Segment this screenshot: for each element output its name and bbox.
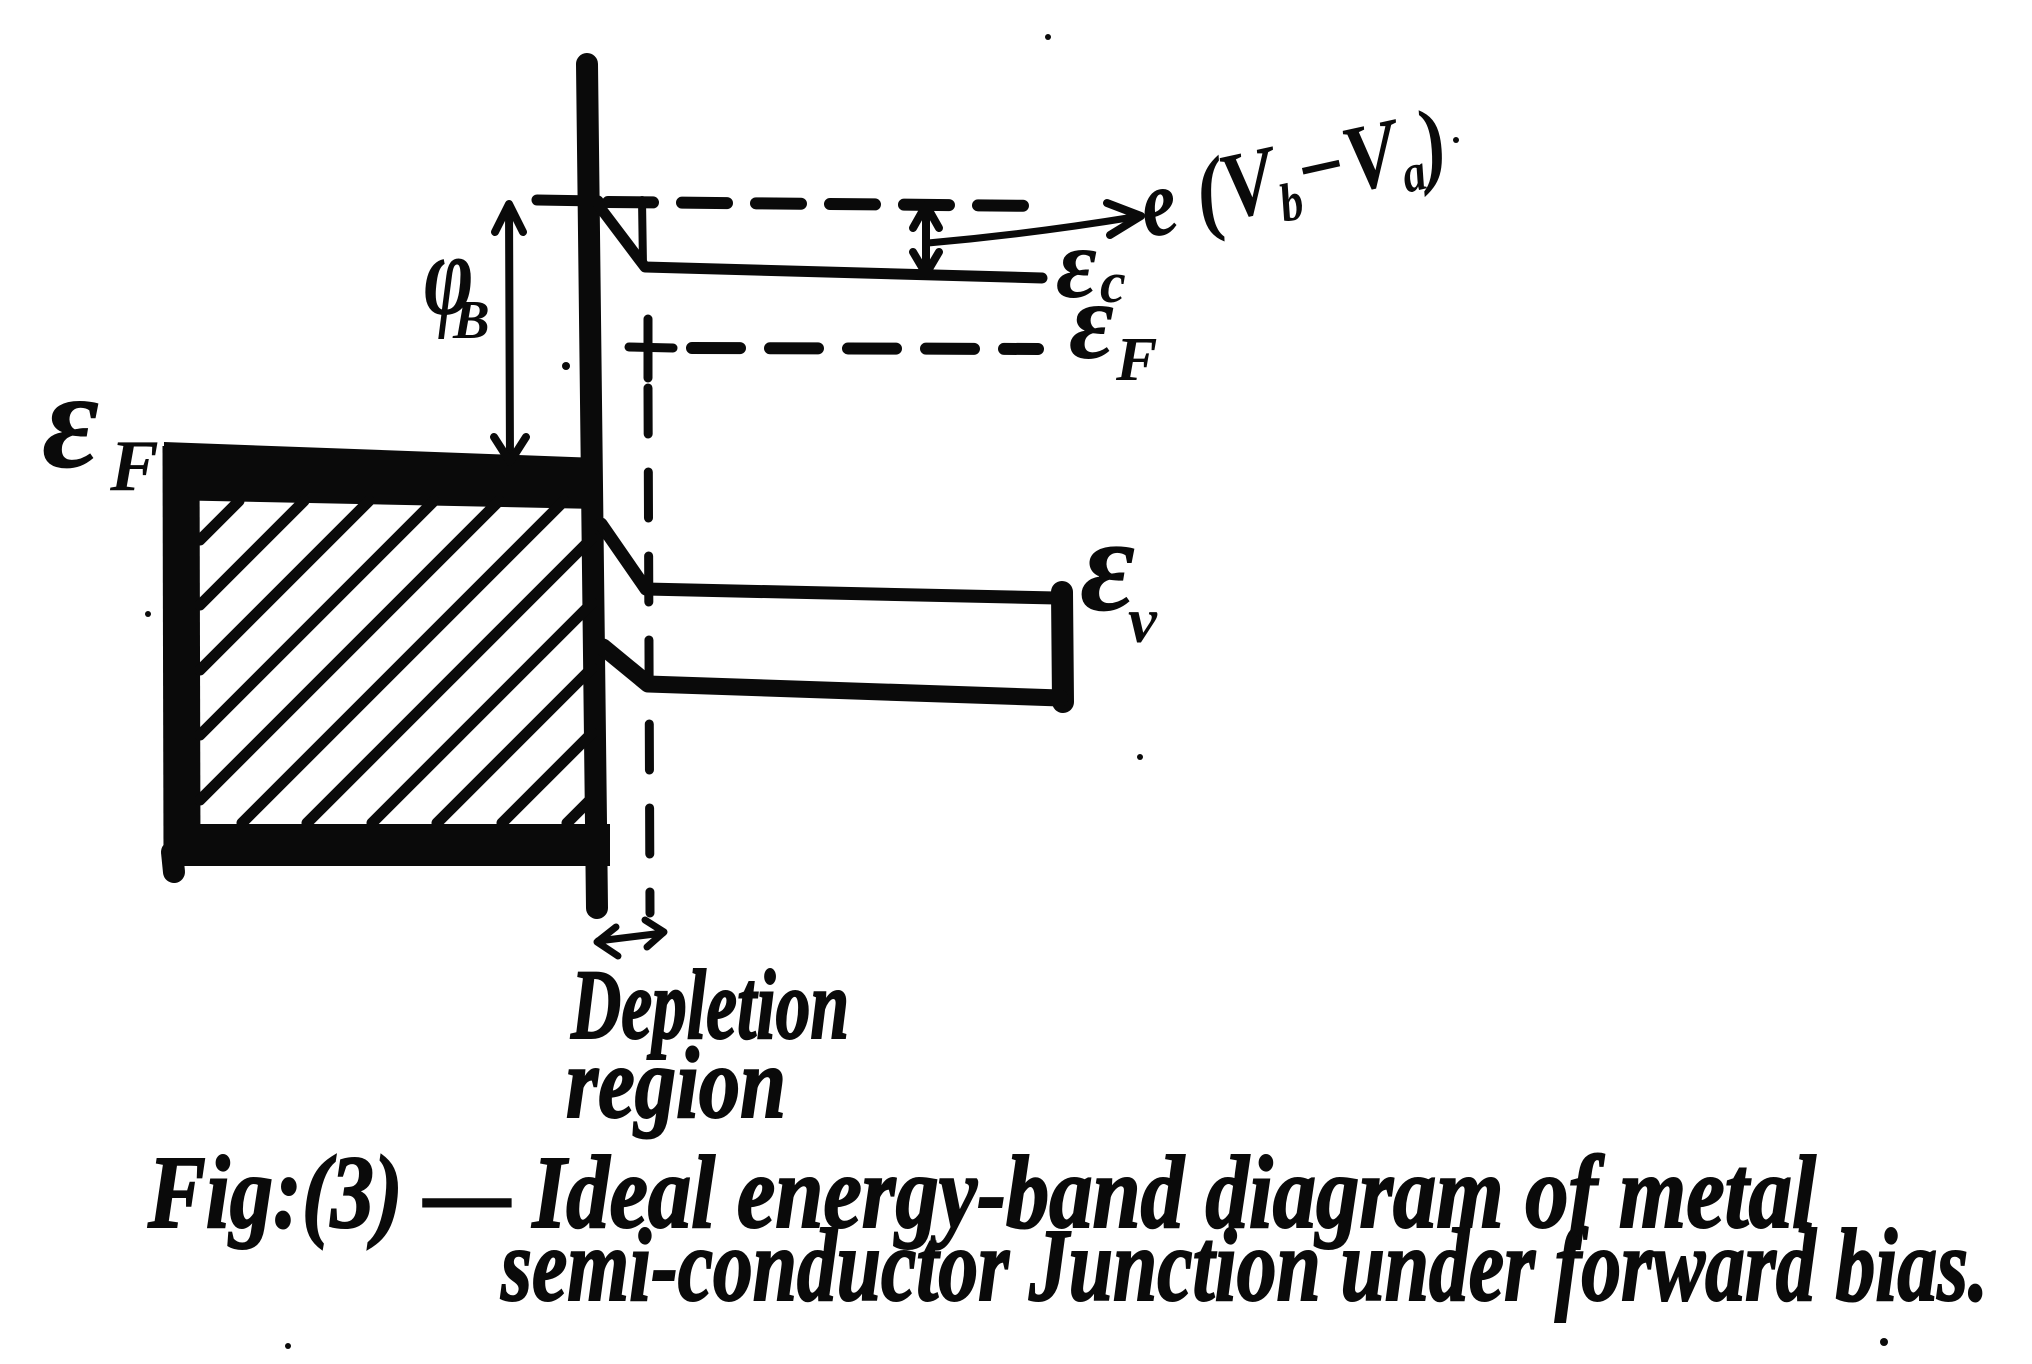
valence band Ev bottom edge	[603, 647, 1060, 698]
svg-text:region: region	[566, 1027, 786, 1140]
semiconductor Fermi level cross: horizontal	[629, 347, 673, 348]
metal block left bar	[181, 446, 182, 858]
small double arrow: top head	[913, 205, 939, 228]
valence band Ev top edge	[601, 524, 1056, 598]
metal block top bar	[164, 442, 598, 509]
svg-text:B: B	[452, 289, 490, 350]
ink speck 4	[285, 1343, 291, 1349]
hatch line 4	[200, 501, 434, 735]
small double arrow e(Vb-Va) gap: shaft	[922, 208, 930, 272]
hatch line 5	[200, 501, 499, 800]
svg-text:F: F	[1115, 326, 1157, 394]
depletion region boundary dashed vertical	[648, 388, 650, 913]
phiB arrow top head	[495, 204, 523, 232]
ink speck 1	[1045, 34, 1051, 40]
ink speck 7	[1137, 754, 1143, 760]
small double arrow: bottom head	[913, 252, 939, 274]
svg-text:v: v	[1128, 585, 1158, 657]
hatch line 9	[437, 668, 592, 823]
label e(Vb-Va)	[1129, 87, 1459, 263]
leader arrow head	[1107, 203, 1141, 235]
barrier height phiB double arrow: shaft	[509, 206, 510, 462]
ink speck 2	[1453, 137, 1459, 143]
phiB arrow bottom head	[494, 437, 526, 462]
depletion width arrow left head	[597, 927, 618, 956]
top dashed level: dashes e(Vb-Va)	[608, 202, 1050, 206]
svg-text:ε: ε	[1069, 260, 1114, 382]
metal block bottom bar	[166, 824, 610, 866]
hatch line 3	[200, 501, 369, 670]
hatch line 2	[200, 501, 304, 605]
valence band Ev right end cap	[1062, 592, 1063, 702]
hatch line 6	[242, 501, 564, 823]
semiconductor Fermi level EF dashes	[692, 348, 1038, 349]
depletion width double arrow: shaft	[598, 933, 663, 941]
tick at depletion edge under top dashed line	[642, 200, 643, 266]
semiconductor Fermi level cross: vertical	[644, 319, 653, 378]
top dashed level: solid segment left of interface	[537, 200, 598, 201]
svg-text:F: F	[109, 425, 159, 506]
hatch line 7	[307, 538, 592, 823]
depletion width arrow right head	[645, 920, 664, 947]
hatch line 10	[502, 733, 592, 823]
hatch line 8	[372, 603, 592, 823]
conduction band Ec: bend at interface	[599, 206, 1042, 278]
metal-semiconductor interface vertical line	[587, 64, 597, 908]
svg-text:ε: ε	[42, 343, 99, 498]
ink speck 5	[1880, 1338, 1888, 1346]
label phiB	[424, 210, 474, 341]
hatch line 1	[200, 501, 239, 540]
leader arrow to e(Vb-Va) label	[928, 217, 1134, 243]
svg-text:semi-conductor Junction under: semi-conductor Junction under forward bi…	[500, 1208, 1988, 1323]
ink speck 3	[562, 362, 570, 370]
metal block bottom-left corner blob	[172, 852, 174, 872]
ink speck 6	[145, 611, 151, 617]
hatch line 11	[567, 798, 592, 823]
